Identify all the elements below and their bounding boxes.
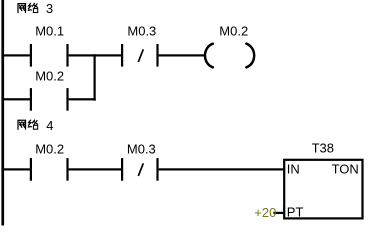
network 3 title 网络 3 xyxy=(18,3,38,12)
svg-text:T38: T38 xyxy=(312,140,334,155)
contact M0.1 (normally open) xyxy=(30,44,32,67)
rung 2 wire: M0.2 to contact M0.3 xyxy=(69,168,121,170)
svg-text:M0.2: M0.2 xyxy=(219,23,248,38)
rung 1 wire: rail to contact M0.1 xyxy=(4,54,30,56)
rung 1 wire: M0.1 to contact M0.3 xyxy=(69,54,122,56)
svg-text:PT: PT xyxy=(287,205,304,220)
coil M0.2 xyxy=(205,44,254,68)
svg-text:4: 4 xyxy=(46,118,53,133)
svg-text:M0.1: M0.1 xyxy=(35,23,64,38)
branch wire: M0.2 to junction xyxy=(69,98,96,100)
svg-text:M0.3: M0.3 xyxy=(127,141,156,156)
svg-text:M0.2: M0.2 xyxy=(35,141,64,156)
svg-text:M0.2: M0.2 xyxy=(35,69,64,84)
timer box TON T38 xyxy=(284,160,362,219)
svg-text:M0.3: M0.3 xyxy=(127,23,156,38)
branch junction vertical wire xyxy=(94,54,96,100)
svg-text:3: 3 xyxy=(46,1,53,16)
rung 1 wire: M0.3 to coil xyxy=(159,54,206,56)
svg-text:TON: TON xyxy=(332,161,359,176)
contact M0.2 (normally open, network 4) xyxy=(30,158,32,181)
contact M0.3 (normally closed) xyxy=(121,44,123,67)
rung 2 wire: M0.3 to timer box IN pin xyxy=(159,168,284,170)
PT pin stub wire xyxy=(273,212,283,214)
branch wire: rail to contact M0.2 xyxy=(4,98,30,100)
svg-text:+20: +20 xyxy=(254,205,276,220)
network 4 title 网络 4 xyxy=(18,120,38,129)
contact M0.2 (normally open, branch) xyxy=(30,88,32,111)
rung 2 wire: rail to contact M0.2 xyxy=(4,168,30,170)
left power rail xyxy=(1,0,4,226)
svg-text:IN: IN xyxy=(287,161,300,176)
contact M0.3 (normally closed, network 4) xyxy=(121,158,123,181)
